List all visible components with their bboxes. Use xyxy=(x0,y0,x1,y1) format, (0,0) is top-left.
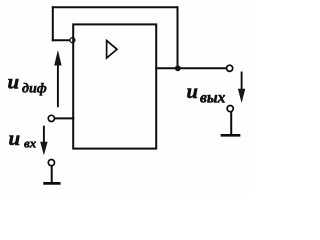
node: inversion bubble on inverting input xyxy=(70,38,75,43)
arrow: u_vyh direction (down) xyxy=(241,73,243,91)
terminal: input lower (open circle) xyxy=(48,160,54,166)
svg-text:u: u xyxy=(9,126,21,150)
junction: output/feedback node xyxy=(175,65,181,71)
terminal: output lower (open circle) xyxy=(227,106,233,112)
ground (left) xyxy=(45,182,60,185)
terminal: input upper (open circle) xyxy=(48,115,54,121)
svg-text:u: u xyxy=(187,81,198,103)
wire: lower input terminal to ground xyxy=(51,166,53,182)
wire: lower output terminal to ground xyxy=(230,112,232,134)
wire: inverting input stub xyxy=(53,39,70,41)
ground (right) xyxy=(222,134,239,137)
wire: feedback left vertical xyxy=(52,7,54,40)
wire: feedback top horizontal xyxy=(53,6,178,8)
terminal: output upper (open circle) xyxy=(227,65,233,71)
svg-text:u: u xyxy=(8,70,20,94)
op-amp U1 body (rectangle) xyxy=(73,24,156,148)
wire: output xyxy=(156,67,226,69)
svg-text:вх: вх xyxy=(24,136,37,151)
arrow: u_vh direction (down) xyxy=(43,127,45,143)
svg-text:вых: вых xyxy=(200,89,226,106)
svg-text:диф: диф xyxy=(22,81,47,96)
arrow: u_dif direction (up) xyxy=(57,57,59,106)
op-amp U1 amplifier triangle symbol xyxy=(107,41,117,58)
wire: feedback right vertical xyxy=(177,7,179,68)
wire: non-inverting input xyxy=(55,117,73,119)
